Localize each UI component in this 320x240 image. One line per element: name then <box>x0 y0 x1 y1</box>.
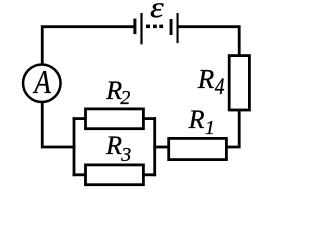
svg-text:ε: ε <box>150 0 164 24</box>
svg-text:R: R <box>197 64 215 94</box>
svg-text:2: 2 <box>120 87 130 109</box>
svg-text:A: A <box>32 63 51 101</box>
svg-text:R: R <box>105 131 122 160</box>
svg-text:1: 1 <box>205 117 215 139</box>
svg-text:R: R <box>188 105 205 134</box>
svg-text:3: 3 <box>120 144 131 166</box>
svg-text:4: 4 <box>215 74 225 100</box>
